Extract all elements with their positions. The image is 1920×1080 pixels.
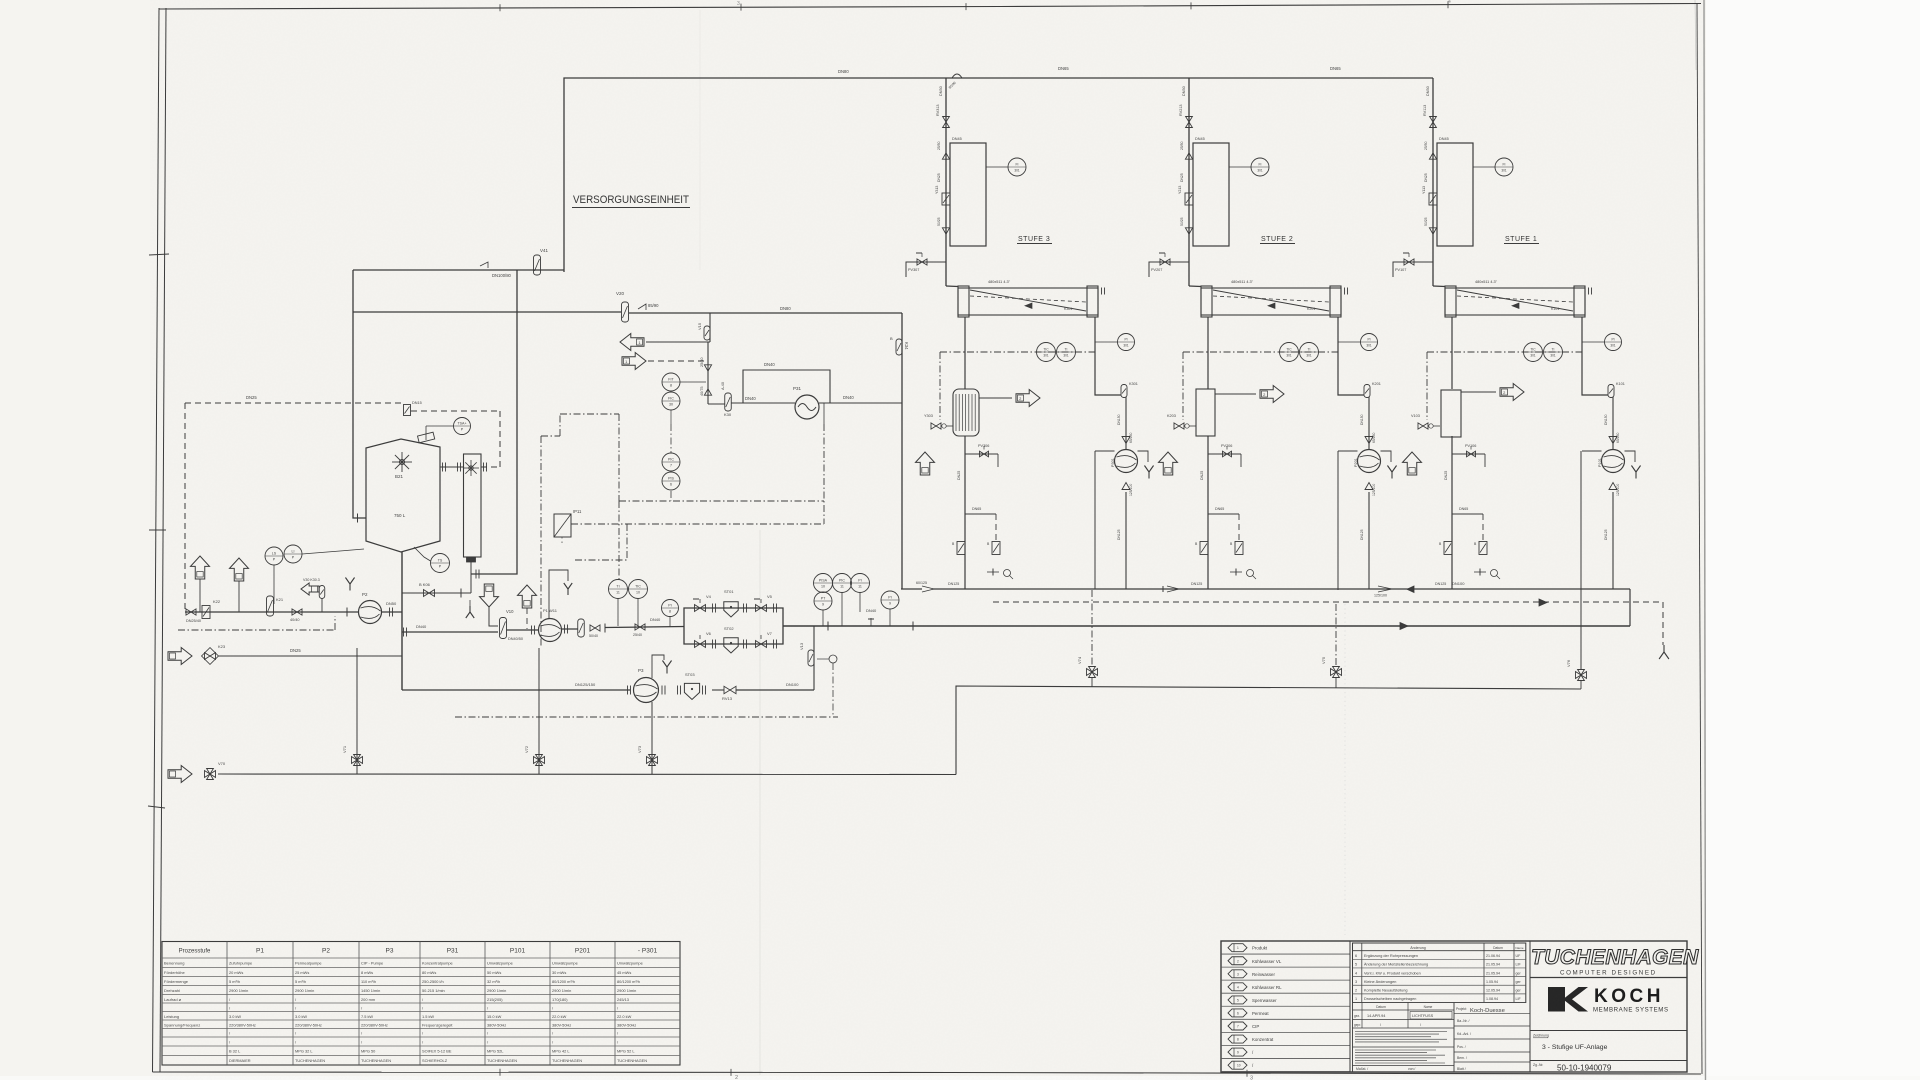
drain inlet arrow V70 [168, 761, 956, 783]
wire to branch [605, 627, 684, 628]
wire riser STUFE 1 [1426, 78, 1445, 287]
drain step up [956, 686, 1581, 775]
pump P301 [1111, 450, 1138, 473]
drain point [1230, 569, 1256, 580]
junction [346, 608, 348, 617]
wire K30 to P31 [731, 396, 795, 403]
arrow in right dashed (CIP RL) [622, 353, 706, 370]
fitting 50/40 [589, 624, 605, 639]
wire drop x353 to tank [353, 270, 366, 523]
reducer 125/100 pump [1365, 483, 1376, 497]
process data table [162, 942, 680, 1066]
wire module downpipe [1451, 317, 1453, 389]
wire tank-heater y467 [440, 463, 500, 472]
manifold labels [838, 66, 1341, 90]
hx stage1 [1441, 390, 1461, 437]
valve K21 [267, 596, 284, 616]
valve V72 [524, 648, 545, 774]
instrument LI/P [284, 545, 364, 563]
reducer 125/100 pump [1609, 483, 1620, 497]
arrow up drain1 [191, 556, 210, 612]
valve side K203 [1167, 352, 1196, 429]
pump P201 [1354, 450, 1381, 473]
instrument PI circle [1095, 334, 1135, 351]
instrument TSA/P [426, 418, 471, 441]
instrument FIC/30 [662, 392, 680, 410]
fitting Y113 [1422, 186, 1437, 205]
label STUFE 1 [1504, 236, 1539, 244]
label 750 L [394, 513, 406, 518]
branch DN65 dashed [1208, 507, 1239, 542]
instrument PI/8b [662, 600, 679, 628]
block heat-exchanger STUFE 2 [1193, 137, 1229, 246]
valve PV207 [1149, 253, 1189, 277]
instrument TI circle [1544, 343, 1563, 362]
instr line dashdot [940, 351, 1095, 353]
vent bracket pump [1582, 451, 1641, 479]
valve V4 [693, 594, 716, 613]
reducer 25/50 [937, 141, 950, 159]
fitting DN40 main [866, 608, 877, 626]
vent bracket pump [1338, 451, 1397, 479]
valve V73 [637, 745, 658, 765]
valve V10 [500, 609, 524, 641]
inlet arrow + valve K23 y656 [168, 644, 402, 665]
fitting Y213 [1178, 186, 1193, 205]
valve PV307 [906, 253, 946, 277]
reducer 50/25 [937, 217, 950, 234]
fitting 25/40 [633, 617, 661, 637]
wire P2 suction y612 [185, 611, 358, 613]
wire pump col to header [1360, 492, 1369, 589]
valve side V103 [1411, 352, 1440, 429]
instrument PT/9 [814, 592, 832, 626]
pump P1 [539, 608, 562, 642]
label DN25 [1424, 173, 1428, 182]
wire x708 down [707, 342, 709, 404]
titleblock revision table [1353, 943, 1526, 1003]
label DN25 [1180, 173, 1184, 182]
pump P3 [628, 668, 666, 703]
wire P1 suction y632 [402, 624, 498, 637]
vent Y heater [466, 600, 474, 618]
wire bracket drain s2 [1337, 451, 1339, 590]
valve V13 drop [799, 626, 814, 690]
arrow up stage inlet [916, 452, 935, 475]
instrument TI circle [1300, 343, 1319, 362]
vent P3 [652, 655, 672, 678]
wire pump col upper [1117, 397, 1126, 449]
arrow up drain2 [230, 558, 249, 612]
pump P2 [359, 592, 382, 624]
vent bracket pump [1095, 451, 1154, 479]
valve V15 [697, 322, 710, 340]
fitting K101 [1608, 382, 1625, 398]
instr line dashdot [1427, 351, 1582, 353]
instrument PI circle [1338, 334, 1378, 351]
wire P31 east [819, 395, 902, 403]
reducer 50/25 [1424, 217, 1437, 234]
valve V30 branch [301, 578, 325, 612]
valve V11 [578, 619, 585, 637]
instrument TI/11 [609, 580, 628, 627]
wire downpipe to header [1435, 436, 1452, 589]
valve V71 [342, 648, 363, 774]
vent Y P2 [345, 578, 354, 591]
tank B21 vessel [366, 432, 440, 552]
arrow left on permeate [1407, 581, 1465, 593]
block heat-exchanger STUFE 3 [950, 137, 986, 246]
valve V74 [1077, 590, 1098, 687]
fitting 40/40 [290, 609, 302, 622]
wire supply y270 [353, 269, 564, 271]
instrument PIC/11 [833, 574, 852, 627]
label STUFE 2 [1260, 236, 1295, 244]
pump P101 [1598, 450, 1625, 473]
titleblock legend [1221, 941, 1687, 1072]
wire P1 disch [562, 625, 579, 634]
drain point [987, 569, 1013, 580]
block heat-exchanger STUFE 1 [1437, 137, 1473, 246]
instrument PIS/6 [662, 472, 680, 490]
instrument TIC circle [1280, 343, 1299, 362]
valve inlet K22 [186, 599, 221, 623]
wire CIP branch x710 [709, 313, 711, 342]
arrow up outlet [518, 585, 537, 629]
arrow down feed V10 [480, 584, 499, 626]
membrane module K101 [1445, 280, 1592, 317]
arrow on main line [1400, 623, 1408, 630]
titleblock logos [1530, 946, 1699, 1073]
strainer ST02 [724, 626, 747, 653]
arrow out 2 s3 [979, 390, 1040, 407]
instrument TIC circle [1037, 343, 1056, 362]
dashdot y717 [455, 716, 838, 718]
valve RV313 [936, 104, 949, 127]
reducer 65/150 [1609, 433, 1620, 444]
wire pump col to header [1604, 492, 1613, 589]
wire pump col to header [1117, 492, 1126, 589]
branch DN65 dashed [1452, 507, 1483, 542]
titleblock signature area [1353, 941, 1531, 1072]
heater drain [402, 562, 471, 598]
fitting Y-02 [1195, 542, 1208, 555]
faint scan creases [700, 10, 1345, 1075]
valve V7 [756, 631, 777, 649]
wire V10-P1 [507, 626, 539, 635]
tank outlet column [401, 552, 403, 690]
fitting Y-02 [1439, 542, 1452, 555]
valve RV13 [712, 682, 814, 701]
instrument PIC/7 [662, 453, 680, 471]
hx stage2 [1196, 389, 1215, 436]
wire riser STUFE 3 [939, 78, 958, 287]
reducer 40/75 [700, 386, 712, 396]
valve K30 [721, 382, 732, 417]
label STUFE 3 [1017, 236, 1052, 244]
instrument PI/11 [851, 574, 870, 613]
reducer s2 [1163, 586, 1179, 592]
wire module return [1582, 317, 1608, 395]
junction tick main [828, 622, 913, 631]
reducer 60/125 s3 [916, 581, 934, 592]
hx stage3 hatched [953, 389, 979, 436]
strainer ST03 [678, 672, 706, 700]
membrane module K301 [958, 280, 1105, 317]
valve RV113 [1423, 105, 1436, 128]
valve PV306 [965, 444, 998, 467]
wire module downpipe [964, 317, 966, 389]
wire y313 V20 to east riser [629, 306, 902, 313]
wire pump col upper [1360, 397, 1369, 449]
arrow up stage inlet [1159, 452, 1178, 475]
reducer 65/150 [1365, 433, 1376, 444]
valve RV213 [1179, 104, 1192, 127]
border zone ticks [148, 0, 1451, 1080]
wire instr links [670, 410, 672, 501]
fitting Y-12 [1230, 542, 1243, 555]
wire to K30 [708, 403, 725, 405]
dashed to heater [411, 411, 500, 467]
instrument TS/P tank bottom [414, 547, 450, 573]
wire bracket drain s3 [1094, 451, 1096, 589]
valve V5 [754, 594, 777, 613]
valve PV106 [1452, 444, 1485, 467]
fitting K201 [1364, 382, 1381, 398]
instrument FIT/8 [662, 373, 706, 391]
CIP dashdot boundary [541, 403, 824, 648]
instrument LS/P [265, 547, 283, 604]
wire bracket drain s1 to V76 [1580, 451, 1582, 670]
wire downpipe to header [948, 436, 965, 589]
valve V41 [480, 248, 549, 278]
valve K34 [890, 336, 909, 355]
main feed header [783, 625, 1630, 627]
instrument TI circle [1057, 343, 1076, 362]
instr line dashdot [1183, 351, 1338, 353]
heater column [463, 454, 481, 562]
instrument FI circle [1229, 158, 1269, 176]
branch DN65 dashed [965, 507, 996, 542]
arrow out left (CIP VL) [620, 334, 710, 351]
wire P2 disch [382, 601, 403, 617]
label DN25 [937, 173, 941, 182]
vent P1 bracket [549, 570, 572, 619]
fitting Y313 [935, 186, 950, 205]
wire riser STUFE 2 [1182, 78, 1201, 287]
arrow out 2 s1 [1461, 384, 1524, 401]
valve PV107 [1393, 253, 1433, 277]
reducer 125/100 s1 [1374, 586, 1392, 598]
wire drop x517 heater feed [471, 270, 517, 579]
instrument PI/9 [881, 591, 899, 626]
reducer 65/150 [1122, 433, 1133, 444]
wire module return [1338, 317, 1364, 395]
valve V6 [695, 631, 716, 649]
agitator B21 [392, 452, 412, 479]
pump P31 (frequency) [793, 386, 819, 419]
valve PV206 [1208, 444, 1241, 467]
instrument PISA/10 [814, 574, 833, 593]
reducer 50/25 [1180, 217, 1193, 234]
fitting DN15 [404, 401, 422, 416]
wire P31 bypass DN40 [743, 362, 830, 403]
valve side Y303 [924, 352, 953, 429]
node manifold corner / supply step pipe [564, 78, 1433, 272]
instrument TIC circle [1524, 343, 1543, 362]
fitting Y-12 [987, 542, 1000, 555]
arrow out 2 s2 [1215, 386, 1284, 403]
wire supply y312 to V20 [353, 311, 621, 313]
valve V76 [1566, 659, 1587, 689]
dashed CIP supply line top [185, 395, 404, 609]
east riser x902 [901, 313, 903, 589]
label VERSORGUNGSEINHEIT [572, 194, 690, 208]
fitting K301 [1121, 382, 1138, 398]
permeate header y589 [901, 589, 1630, 626]
wire P3 line y690 [402, 682, 630, 690]
strainer branch block [684, 608, 783, 644]
reducer 25/40 [700, 357, 712, 371]
wire module return [1095, 317, 1121, 395]
dashdot CIP low [178, 616, 335, 630]
strainer ST01 [724, 589, 747, 617]
scan page right edge [1695, 0, 1706, 1080]
instrument FI circle [986, 158, 1026, 176]
instrument FI circle [1473, 158, 1513, 176]
instrument TIC/10 [629, 580, 648, 628]
fitting HO + dashdot [817, 655, 837, 717]
fitting Y-12 [1474, 542, 1487, 555]
arrow up stage inlet [1403, 452, 1422, 475]
reducer 25/50 [1180, 141, 1193, 159]
valve V75 [1321, 604, 1342, 688]
instrument PI circle [1582, 334, 1622, 351]
wire module downpipe [1207, 317, 1209, 389]
reducer 125/100 pump [1122, 483, 1133, 497]
wire downpipe to header [1191, 436, 1208, 589]
dashed concentrate line [993, 599, 1669, 659]
pump P3 drain [651, 702, 653, 774]
valve V20 [616, 291, 659, 322]
reducer 25/50 [1424, 141, 1437, 159]
fitting Y-02 [952, 542, 965, 555]
membrane module K201 [1201, 280, 1348, 317]
drain point [1474, 569, 1500, 580]
transmitter IP11 [554, 509, 582, 545]
wire pump col upper [1604, 397, 1613, 449]
